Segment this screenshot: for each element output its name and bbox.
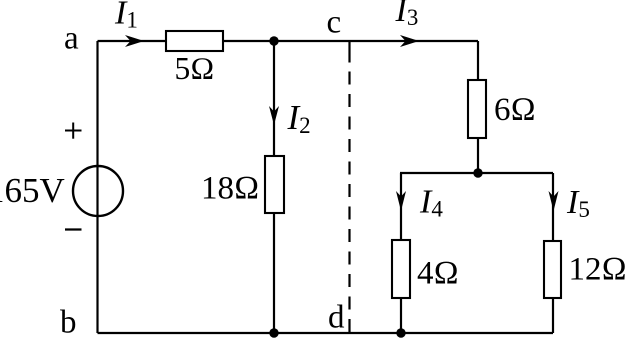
svg-text:4Ω: 4Ω [417, 256, 459, 292]
svg-text:d: d [328, 300, 345, 336]
svg-text:c: c [327, 5, 342, 41]
svg-text:5Ω: 5Ω [175, 51, 215, 86]
svg-text:I3: I3 [395, 0, 419, 30]
svg-text:165V: 165V [0, 171, 65, 210]
svg-text:b: b [60, 305, 77, 340]
svg-text:a: a [64, 21, 79, 57]
svg-text:6Ω: 6Ω [494, 92, 536, 128]
svg-text:12Ω: 12Ω [569, 252, 625, 288]
svg-text:18Ω: 18Ω [201, 171, 259, 207]
